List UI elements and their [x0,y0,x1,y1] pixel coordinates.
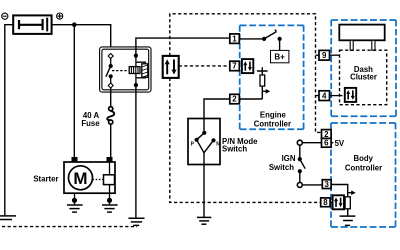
transceiver ECM [242,59,253,73]
svg-text:Body: Body [353,154,373,163]
connector data-link C1 [163,56,179,78]
ECM driver switch [239,30,281,51]
wire pin 3 to resistor [331,185,348,197]
relay linkage dashed [112,70,129,72]
relay contact [106,54,113,89]
label Engine Controller [254,111,291,129]
wire fuse to starter terminal [110,124,112,157]
chassis dashed line [2,226,137,228]
svg-text:Switch: Switch [222,145,247,154]
wire pin 8 to transceiver [330,201,333,203]
pin 9 stub [316,54,320,56]
wire junction to starter left terminal [73,25,75,157]
label Dash Cluster [350,65,377,82]
battery positive terminal [57,13,63,19]
svg-text:6: 6 [324,139,329,148]
svg-text:7: 7 [232,62,237,71]
dash cluster inner dashed box [340,50,387,104]
svg-text:Engine: Engine [260,111,287,120]
pin 4 stub [316,95,320,97]
wire relay coil to ECM pin 1 [136,38,230,56]
relay coil top terminal [134,54,138,67]
svg-text:9: 9 [322,51,327,60]
svg-text:8: 8 [323,198,328,207]
B+ box [271,50,289,62]
svg-text:2: 2 [324,130,329,139]
svg-text:IGN: IGN [282,154,296,163]
label Body Controller [345,154,382,172]
body controller box [331,123,396,227]
bus dashed branch to ECM pin 7 [179,65,230,67]
pin 6 BCM [322,138,332,147]
wire IGN to BCM pin 3 [302,184,322,186]
wire ECM pin2 to P/N switch [204,99,230,119]
fuse F1 40A [107,107,114,125]
wire P/N switch to ground [203,165,205,218]
pin 2 BCM [322,130,332,139]
dash cluster display module [339,25,384,51]
pin 7 ECM [230,61,240,70]
relay coil winding [129,67,140,74]
wire pin 4 to cluster transceiver [330,95,343,97]
svg-text:N: N [216,142,220,148]
svg-text:Starter: Starter [33,174,58,183]
bus dashed top loop [170,14,322,133]
relay coil core [136,62,148,78]
svg-text:4: 4 [322,91,327,100]
pin 2 ECM [230,94,240,104]
label P/N Mode Switch [222,137,258,153]
wire relay contact to fuse [110,88,112,107]
svg-text:3: 3 [325,180,330,189]
transceiver BCM [333,195,344,209]
svg-text:1: 1 [232,34,237,43]
P/N mode switch S1 [188,119,220,165]
pull-up resistor R1 [239,67,267,99]
pull-down resistor R2 [345,197,350,216]
svg-text:Fuse: Fuse [81,119,100,128]
label 40 A Fuse [81,111,100,128]
IGN switch S2 [297,140,305,187]
dash cluster box [331,20,396,116]
ground BCM [340,216,356,225]
svg-text:Switch: Switch [269,163,294,172]
transceiver dash cluster [345,88,356,102]
svg-text:Cluster: Cluster [350,73,377,82]
label IGN Switch [269,154,296,172]
ground P/N switch [197,217,211,224]
ground battery [0,216,16,220]
ground relay coil [128,218,144,225]
svg-text:Controller: Controller [254,119,291,128]
ground starter right [102,193,118,212]
svg-text:5V: 5V [335,139,345,148]
starter motor M1 [64,157,115,193]
wire battery plus rail [52,25,111,54]
signal tap arrow BCM [348,190,356,195]
pin 4 dash cluster [319,91,330,101]
relay K1 [100,47,151,92]
svg-text:B+: B+ [274,52,285,61]
pin 8 BCM [321,198,330,207]
wire pin 9 to cluster [330,54,340,56]
pin 1 ECM [230,34,240,44]
svg-text:2: 2 [232,95,237,104]
battery B1 [13,15,51,34]
engine controller box [240,25,304,129]
label 5V [331,139,345,148]
pin 9 dash cluster [319,50,330,60]
ground starter left [67,193,83,212]
svg-text:M: M [73,169,87,188]
wire battery minus down [5,25,13,216]
junction battery feed [72,22,77,27]
wire relay coil to ground [135,85,137,218]
relay coil bottom terminal [134,74,138,88]
battery negative terminal [2,13,8,19]
signal tap arrow ECM [262,89,270,94]
svg-text:Controller: Controller [345,163,382,172]
wire IGN to BCM pin 6 [302,142,321,144]
bus dashed bottom branch [170,78,321,203]
pin 3 BCM [322,180,331,189]
